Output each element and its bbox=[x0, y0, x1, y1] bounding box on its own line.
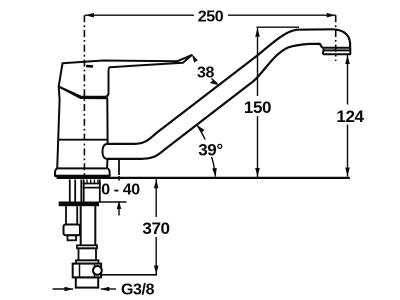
faucet handle lever bbox=[59, 55, 192, 97]
dim 150 bottom arrow bbox=[255, 168, 260, 177]
base plinth bbox=[55, 168, 110, 176]
spout lower edge bbox=[108, 44, 323, 159]
svg-text:150: 150 bbox=[244, 98, 271, 117]
handle indicator dash bbox=[86, 65, 93, 68]
hex nut circle detail bbox=[93, 266, 102, 275]
dim 0-40 arrow bbox=[117, 201, 122, 209]
threaded shank bbox=[81, 180, 101, 202]
svg-text:124: 124 bbox=[336, 107, 364, 126]
dim 150 line bbox=[257, 28, 259, 177]
dim 38 lower arrow bbox=[210, 80, 219, 85]
small line below spout root bbox=[118, 160, 120, 175]
dim 124 line bbox=[347, 55, 349, 177]
dim 250 line bbox=[85, 14, 336, 16]
hex nut facets bbox=[79, 264, 81, 278]
mounting stud (above flange) bbox=[70, 180, 75, 202]
dim 150 extension line bbox=[257, 26, 300, 28]
supply pipe bbox=[81, 206, 96, 245]
svg-text:38: 38 bbox=[197, 65, 214, 82]
angle 39 text backing bbox=[198, 140, 224, 158]
mounting surface line bbox=[57, 177, 350, 179]
angle 39 top arrow bbox=[197, 125, 205, 133]
dim 124 top arrow bbox=[345, 55, 350, 64]
faucet body outline bbox=[57, 87, 107, 169]
coupling ridge 1 bbox=[77, 245, 97, 248]
coupling body bbox=[79, 248, 97, 260]
svg-text:370: 370 bbox=[142, 219, 169, 238]
spout upper edge bbox=[108, 29, 351, 144]
coupling ridge 2 bbox=[76, 260, 99, 263]
supply stud below flange bbox=[66, 206, 77, 224]
aerator housing bbox=[322, 48, 350, 54]
G3/8 threaded end bbox=[76, 277, 98, 287]
angle 39 bottom arrow bbox=[212, 168, 217, 177]
dim 0-40 tick at surface bbox=[118, 176, 120, 181]
dim 250 left arrow bbox=[85, 13, 94, 18]
dim 38 leader bbox=[193, 56, 218, 84]
valve tip bbox=[68, 235, 77, 240]
angle 39 arc bbox=[198, 126, 216, 177]
body centerline (dash-dot) bbox=[83, 15, 85, 177]
dim G3/8 left arrow line bbox=[53, 288, 74, 290]
valve nut bbox=[64, 225, 81, 236]
dim 370 bottom arrow bbox=[154, 266, 159, 275]
body seam line bbox=[58, 139, 108, 141]
dim 370 bottom reference line bbox=[101, 274, 157, 276]
dim 150 top arrow bbox=[255, 28, 260, 37]
outlet centerline (dashed) bbox=[335, 15, 337, 61]
hex nut bbox=[73, 264, 101, 278]
spout root cap bbox=[102, 144, 107, 159]
flange top extension line bbox=[99, 201, 127, 203]
svg-text:250: 250 bbox=[198, 9, 224, 26]
base bottom edge bbox=[55, 175, 110, 177]
dim 370 line bbox=[155, 179, 157, 274]
clamping flange bbox=[59, 202, 99, 207]
dim 370 top arrow bbox=[154, 179, 159, 188]
svg-text:G3/8: G3/8 bbox=[121, 281, 155, 298]
dim 250 right arrow bbox=[327, 13, 336, 18]
dim G3/8 right arrow line bbox=[101, 288, 116, 290]
dim 124 bottom arrow bbox=[345, 168, 350, 177]
svg-text:39°: 39° bbox=[198, 141, 223, 160]
dim 38 upper arrow bbox=[192, 55, 198, 63]
dim 0-40 line lower segment bbox=[118, 202, 120, 216]
svg-text:0 - 40: 0 - 40 bbox=[101, 181, 140, 198]
